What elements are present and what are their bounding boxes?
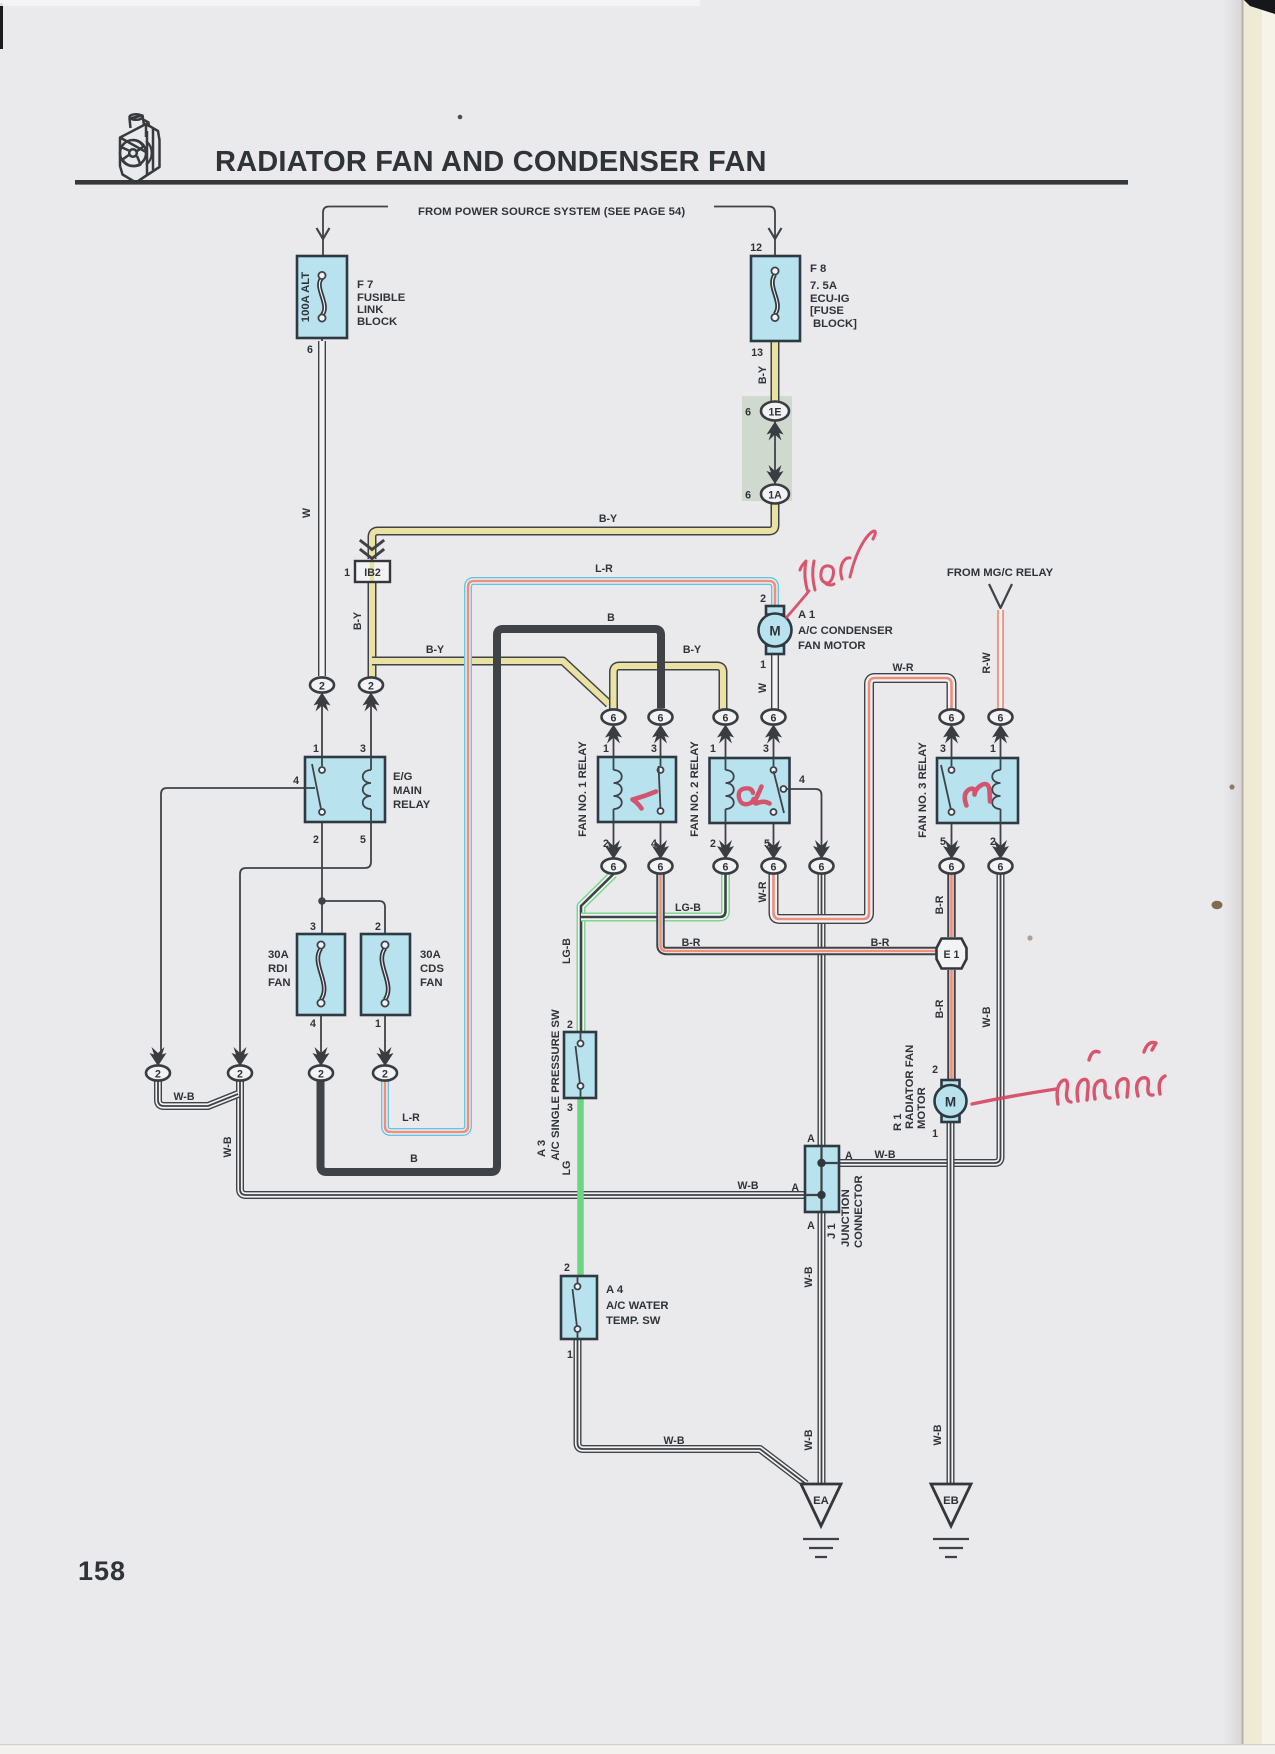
svg-text:A 1: A 1 xyxy=(798,609,815,621)
svg-text:30A: 30A xyxy=(420,949,441,961)
svg-text:6: 6 xyxy=(949,713,955,725)
wire: E/G relay pin5 lead xyxy=(240,822,371,1058)
svg-text:IB2: IB2 xyxy=(364,567,381,579)
svg-text:6: 6 xyxy=(949,862,955,874)
connector 6 (fan no.3 relay pin5) xyxy=(940,840,964,874)
header note: FROM MG/C RELAY xyxy=(947,567,1054,608)
svg-text:6: 6 xyxy=(611,862,617,874)
svg-text:TEMP. SW: TEMP. SW xyxy=(606,1315,661,1327)
svg-text:CONNECTOR: CONNECTOR xyxy=(853,1175,865,1248)
relay FAN NO. 3 RELAY xyxy=(917,742,1018,848)
ground EA xyxy=(801,1484,841,1557)
svg-text:3: 3 xyxy=(763,743,769,755)
red pen: mark 2 on fan no.2 relay xyxy=(739,787,770,805)
connector 6 (fan no.3 relay pin2) xyxy=(989,840,1013,874)
wire: fuse bottom leads xyxy=(321,1015,385,1058)
svg-text:J 1: J 1 xyxy=(826,1223,838,1239)
svg-text:6: 6 xyxy=(998,713,1004,725)
svg-text:1: 1 xyxy=(344,567,350,579)
svg-text:2: 2 xyxy=(710,838,716,850)
svg-text:W-B: W-B xyxy=(875,1149,896,1161)
svg-text:2: 2 xyxy=(932,1064,938,1076)
svg-text:6: 6 xyxy=(998,862,1004,874)
svg-text:JUNCTION: JUNCTION xyxy=(840,1189,852,1247)
wire L-R: CDS fuse to A/C condenser fan motor xyxy=(385,581,775,1132)
relay FAN NO. 1 RELAY xyxy=(577,741,676,850)
svg-text:A/C CONDENSER: A/C CONDENSER xyxy=(798,625,893,637)
svg-text:RELAY: RELAY xyxy=(393,799,431,811)
radiator fan icon xyxy=(120,114,160,182)
connector 6 (fan no.2 relay pin4) xyxy=(810,840,834,874)
connector 2 (RDI fuse) xyxy=(309,1047,333,1081)
motor A1 A/C CONDENSER FAN MOTOR xyxy=(759,593,893,671)
svg-text:W-B: W-B xyxy=(664,1435,685,1447)
title rule xyxy=(75,180,1128,185)
svg-text:5: 5 xyxy=(940,836,946,848)
svg-text:158: 158 xyxy=(78,1556,126,1586)
svg-text:A 4: A 4 xyxy=(606,1284,624,1296)
svg-text:E/G: E/G xyxy=(393,771,413,783)
wire: lead between connectors 1E and 1A xyxy=(774,421,776,484)
svg-text:FAN NO. 3 RELAY: FAN NO. 3 RELAY xyxy=(917,742,929,838)
junction: E/G pin2 node xyxy=(318,897,326,905)
svg-text:1: 1 xyxy=(603,743,609,755)
svg-text:FAN: FAN xyxy=(420,977,443,989)
svg-text:6: 6 xyxy=(819,862,825,874)
svg-text:MOTOR: MOTOR xyxy=(916,1087,928,1129)
connector 2 (CDS fuse) xyxy=(373,1047,397,1081)
svg-text:2: 2 xyxy=(567,1019,573,1031)
wire W-B: A4 water temp switch to ground EA xyxy=(578,1339,807,1484)
svg-text:2: 2 xyxy=(368,681,374,693)
svg-text:LG-B: LG-B xyxy=(561,938,573,964)
svg-text:A: A xyxy=(791,1182,799,1194)
wire LG-B: branch to fan no.2 relay pin2 xyxy=(581,874,726,917)
wire: fan no.2 relay pin4 lead xyxy=(790,789,822,858)
wire W-B: relay3 pin2 down and left to J1 xyxy=(839,874,1001,1163)
wire: E/G relay pin4 lead xyxy=(161,788,305,1058)
svg-text:6: 6 xyxy=(723,713,729,725)
svg-text:FAN: FAN xyxy=(268,977,291,989)
svg-text:30A: 30A xyxy=(268,949,289,961)
svg-text:L-R: L-R xyxy=(402,1112,420,1124)
svg-text:RDI: RDI xyxy=(268,963,287,975)
svg-text:6: 6 xyxy=(771,713,777,725)
fuse 30A RDI FAN xyxy=(268,921,381,1030)
svg-text:F 8: F 8 xyxy=(810,263,826,275)
connector 2 (E/G pin5 branch) xyxy=(228,1047,252,1081)
svg-text:4: 4 xyxy=(293,775,299,787)
svg-text:F 7: F 7 xyxy=(357,279,373,291)
svg-text:M: M xyxy=(769,624,780,639)
svg-text:2: 2 xyxy=(313,834,319,846)
svg-text:CDS: CDS xyxy=(420,963,444,975)
svg-text:B: B xyxy=(410,1153,418,1165)
svg-text:A/C SINGLE PRESSURE SW: A/C SINGLE PRESSURE SW xyxy=(550,1009,562,1161)
svg-text:1: 1 xyxy=(375,1018,381,1030)
svg-text:W-B: W-B xyxy=(174,1091,195,1103)
svg-text:3: 3 xyxy=(310,921,316,933)
svg-text:LG-B: LG-B xyxy=(675,902,701,914)
wire W-B: relay2 pin4 down to J1 xyxy=(821,874,823,1146)
svg-text:FAN NO. 2 RELAY: FAN NO. 2 RELAY xyxy=(689,741,701,837)
svg-text:W-B: W-B xyxy=(981,1006,993,1027)
svg-text:6: 6 xyxy=(611,713,617,725)
connector 6 (fan no.1 relay pin4) xyxy=(649,840,673,874)
ground EB xyxy=(931,1484,971,1557)
svg-text:2: 2 xyxy=(237,1069,243,1081)
svg-text:4: 4 xyxy=(799,774,805,786)
fusible link block F7 (100A ALT) xyxy=(297,256,406,356)
switch A4 A/C WATER TEMP. SW xyxy=(561,1262,669,1361)
wire B-Y: branch to fan no.2 relay pin1 xyxy=(614,666,724,709)
svg-text:6: 6 xyxy=(723,862,729,874)
connector 6 (fan no.2 relay pin5) xyxy=(762,840,786,874)
svg-text:FUSIBLE: FUSIBLE xyxy=(357,292,406,304)
connector 2 (E/G pin4 branch, leftmost) xyxy=(146,1047,170,1081)
svg-text:A: A xyxy=(807,1220,815,1232)
wire B-Y: connector 1A to IB2 xyxy=(372,503,775,559)
red pen: annotation near R1 motor xyxy=(972,1042,1165,1104)
svg-text:W-B: W-B xyxy=(803,1429,815,1450)
svg-text:1: 1 xyxy=(710,743,716,755)
svg-text:R-W: R-W xyxy=(981,652,993,673)
svg-text:RADIATOR FAN: RADIATOR FAN xyxy=(904,1045,916,1129)
wire B-R: E1 to radiator fan motor xyxy=(951,970,953,1081)
svg-text:A 3: A 3 xyxy=(536,1140,548,1157)
svg-text:A: A xyxy=(807,1133,815,1145)
svg-text:B-R: B-R xyxy=(934,999,946,1018)
connector 6 (fan no.3 relay pin1) xyxy=(989,709,1013,743)
svg-text:3: 3 xyxy=(360,743,366,755)
connector IB2 xyxy=(344,541,390,582)
svg-text:FROM POWER SOURCE SYSTEM (SEE: FROM POWER SOURCE SYSTEM (SEE PAGE 54) xyxy=(418,206,685,218)
wire: E/G relay pin2 lead to fuses xyxy=(322,822,385,934)
svg-text:1: 1 xyxy=(760,659,766,671)
red pen: annotation near A1 motor xyxy=(786,531,875,618)
svg-text:13: 13 xyxy=(751,347,763,359)
svg-text:B-Y: B-Y xyxy=(599,513,617,525)
svg-text:1: 1 xyxy=(932,1128,938,1140)
svg-text:W-R: W-R xyxy=(893,662,914,674)
svg-text:3: 3 xyxy=(651,743,657,755)
svg-text:1: 1 xyxy=(567,1349,573,1361)
connector 6 (fan no.2 relay pin3) xyxy=(762,709,786,743)
wire R-W: from MG/C relay to fan no.3 relay pin1 xyxy=(1000,610,1002,710)
svg-text:6: 6 xyxy=(745,407,751,419)
motor R1 RADIATOR FAN MOTOR xyxy=(892,1045,967,1140)
svg-text:3: 3 xyxy=(567,1102,573,1114)
svg-text:M: M xyxy=(945,1095,956,1110)
svg-text:4: 4 xyxy=(310,1018,316,1030)
svg-text:W-B: W-B xyxy=(738,1180,759,1192)
wire B-R: fan no.1 relay pin4 to E1 xyxy=(661,874,937,951)
svg-text:1E: 1E xyxy=(769,407,782,419)
svg-text:[FUSE: [FUSE xyxy=(810,305,844,317)
connector 2 (W wire) xyxy=(310,677,334,711)
svg-text:6: 6 xyxy=(658,713,664,725)
svg-text:6: 6 xyxy=(307,344,313,356)
wire B-Y: fuse F8 to connector 1E xyxy=(774,341,776,401)
connector 6 (fan no.2 relay pin1) xyxy=(714,709,738,743)
svg-text:2: 2 xyxy=(564,1262,570,1274)
svg-text:2: 2 xyxy=(375,921,381,933)
svg-text:B-R: B-R xyxy=(871,937,890,949)
svg-text:7. 5A: 7. 5A xyxy=(810,280,837,292)
wire LG: pressure switch to water temp switch xyxy=(580,1098,582,1276)
svg-text:EA: EA xyxy=(813,1495,829,1507)
wire B-Y: IB2 down to connector 2 xyxy=(371,582,373,678)
svg-text:E 1: E 1 xyxy=(944,949,960,961)
svg-text:B-Y: B-Y xyxy=(757,366,769,384)
header note: FROM POWER SOURCE SYSTEM (SEE PAGE 54) xyxy=(317,206,782,256)
svg-text:12: 12 xyxy=(750,242,762,254)
shading behind connectors 1E/1A xyxy=(742,396,792,501)
svg-text:100A ALT: 100A ALT xyxy=(300,272,312,323)
connector 6 (fan no.3 relay pin3) xyxy=(940,709,964,743)
svg-text:ECU-IG: ECU-IG xyxy=(810,293,850,305)
relay FAN NO. 2 RELAY xyxy=(689,741,805,850)
connector 6 (fan no.1 relay pin2) xyxy=(602,840,626,874)
svg-text:3: 3 xyxy=(940,743,946,755)
svg-text:6: 6 xyxy=(658,862,664,874)
fuse F8 (7.5A ECU-IG) xyxy=(750,242,857,359)
wire B-Y: branch to fan no.1 relay pin1 xyxy=(372,661,609,704)
svg-text:B-Y: B-Y xyxy=(426,644,444,656)
svg-text:B-Y: B-Y xyxy=(352,612,364,630)
wire W: A/C condenser fan motor to connector xyxy=(774,654,776,710)
wire: relay bottom pin leads xyxy=(614,822,1001,858)
fuse 30A CDS FAN xyxy=(361,934,444,1015)
svg-text:B-R: B-R xyxy=(934,895,946,914)
svg-text:EB: EB xyxy=(943,1495,959,1507)
svg-text:1: 1 xyxy=(990,743,996,755)
svg-text:LG: LG xyxy=(561,1161,573,1176)
svg-text:W-B: W-B xyxy=(932,1424,944,1445)
svg-text:2: 2 xyxy=(760,593,766,605)
svg-text:B: B xyxy=(607,612,615,624)
svg-text:W: W xyxy=(757,683,769,693)
wire: thin pin leads at F7/F8 tops xyxy=(322,256,775,341)
connector 1E xyxy=(745,402,789,441)
connector 6 (fan no.1 relay pin1) xyxy=(602,709,626,743)
connector 1A xyxy=(745,465,789,504)
red pen: mark 1 on fan no.1 relay xyxy=(633,792,657,809)
svg-text:BLOCK: BLOCK xyxy=(357,316,398,328)
svg-text:FAN MOTOR: FAN MOTOR xyxy=(798,640,866,652)
connector E1 xyxy=(937,939,967,969)
connector 6 (fan no.2 relay pin2) xyxy=(714,840,738,874)
wire: E/G relay pin1 and pin3 leads xyxy=(322,693,371,757)
svg-text:5: 5 xyxy=(360,834,366,846)
svg-text:6: 6 xyxy=(771,862,777,874)
svg-text:B-R: B-R xyxy=(682,937,701,949)
svg-text:2: 2 xyxy=(319,681,325,693)
svg-text:A: A xyxy=(845,1150,853,1162)
svg-text:1: 1 xyxy=(313,743,319,755)
wire W-B: jog from leftmost connector 2 xyxy=(158,1081,238,1106)
wire LG-B: fan no.1 relay pin2 to pressure switch xyxy=(581,874,614,1032)
svg-text:FAN NO. 1 RELAY: FAN NO. 1 RELAY xyxy=(577,741,589,837)
svg-text:2: 2 xyxy=(155,1069,161,1081)
svg-text:2: 2 xyxy=(382,1069,388,1081)
svg-text:MAIN: MAIN xyxy=(393,785,422,797)
switch A3 A/C SINGLE PRESSURE SW xyxy=(536,1009,596,1161)
svg-text:W: W xyxy=(301,508,313,518)
svg-text:B-Y: B-Y xyxy=(683,644,701,656)
svg-text:BLOCK]: BLOCK] xyxy=(813,318,857,330)
svg-text:2: 2 xyxy=(318,1069,324,1081)
svg-text:RADIATOR FAN AND CONDENSER FAN: RADIATOR FAN AND CONDENSER FAN xyxy=(215,146,767,178)
svg-text:W-B: W-B xyxy=(222,1136,234,1157)
connector 2 (B-Y wire) xyxy=(359,677,383,711)
svg-text:6: 6 xyxy=(745,490,751,502)
wire W-B: long run from connector 2 row to J1 pin A xyxy=(240,1081,805,1195)
svg-text:LINK: LINK xyxy=(357,304,384,316)
junction connector J1 xyxy=(791,1133,865,1248)
wire W: fusible link F7 down to connector 2 xyxy=(321,341,323,676)
svg-text:W-R: W-R xyxy=(757,881,769,902)
red pen: mark 3 on fan no.3 relay xyxy=(965,784,990,805)
relay E/G MAIN RELAY xyxy=(293,743,431,846)
svg-text:1A: 1A xyxy=(768,490,782,502)
svg-text:L-R: L-R xyxy=(595,563,613,575)
svg-text:W-B: W-B xyxy=(803,1266,815,1287)
wire W-B: radiator fan motor to ground EB xyxy=(950,1121,952,1484)
svg-text:FROM MG/C RELAY: FROM MG/C RELAY xyxy=(947,567,1054,579)
wire: relay top pin leads xyxy=(614,725,1001,758)
wire W-R: fan no.2 relay pin5 to fan no.3 relay pin3 xyxy=(774,678,952,919)
wire B-R: fan no.3 relay pin5 to E1 xyxy=(951,874,953,937)
svg-text:R 1: R 1 xyxy=(892,1113,904,1131)
svg-text:A/C WATER: A/C WATER xyxy=(606,1300,669,1312)
wire B: CDS circuit black wire xyxy=(321,629,662,1172)
connector 6 (fan no.1 relay pin3) xyxy=(649,709,673,743)
wire W-B: J1 down to ground EA xyxy=(821,1212,823,1484)
